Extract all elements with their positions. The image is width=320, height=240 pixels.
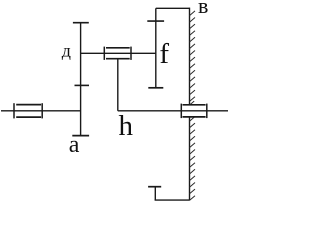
shaft f vertical [155, 8, 157, 88]
svg-text:д: д [62, 40, 71, 60]
bottom support link to wall [155, 199, 190, 201]
wall hatching [190, 11, 196, 201]
gear b (on wall) body top [183, 104, 206, 106]
shaft a vertical [80, 23, 82, 136]
gear a (left) left tick [13, 103, 15, 118]
bottom support stem [154, 187, 156, 200]
wire top link (shaft f to frame wall) [156, 7, 190, 9]
wire link h horizontal (to gear on wall and out right) [118, 110, 228, 112]
gear d (centre) body top [106, 47, 130, 49]
bearing tick on shaft a [75, 84, 90, 86]
bearing tick on shaft f [147, 20, 164, 22]
wire shaft d horizontal (shaft a to shaft f) [81, 52, 156, 54]
svg-text:в: в [198, 0, 208, 18]
gear a (left) right tick [41, 103, 43, 118]
end bar of shaft a [72, 135, 89, 137]
bottom support bar [148, 186, 161, 188]
gear a (left) body top [16, 104, 41, 106]
svg-text:h: h [119, 110, 134, 142]
gear d (centre) body bottom [106, 58, 130, 60]
end bar of shaft f [148, 87, 163, 89]
top bar of shaft a [73, 22, 89, 24]
svg-text:f: f [159, 38, 169, 70]
gear b (on wall) left tick [180, 104, 182, 119]
frame wall upper segment [189, 8, 191, 105]
gear d (centre) right tick [130, 47, 132, 60]
gear a (left) body bottom [16, 116, 41, 118]
wire left input shaft [1, 110, 81, 112]
gear d (centre) left tick [103, 47, 105, 60]
svg-text:a: a [69, 132, 80, 158]
wire link h vertical (gear d to level h) [117, 59, 119, 111]
gear b (on wall) body bottom [183, 116, 206, 118]
gear b (on wall) right tick [206, 104, 208, 119]
frame wall lower segment [189, 117, 191, 200]
